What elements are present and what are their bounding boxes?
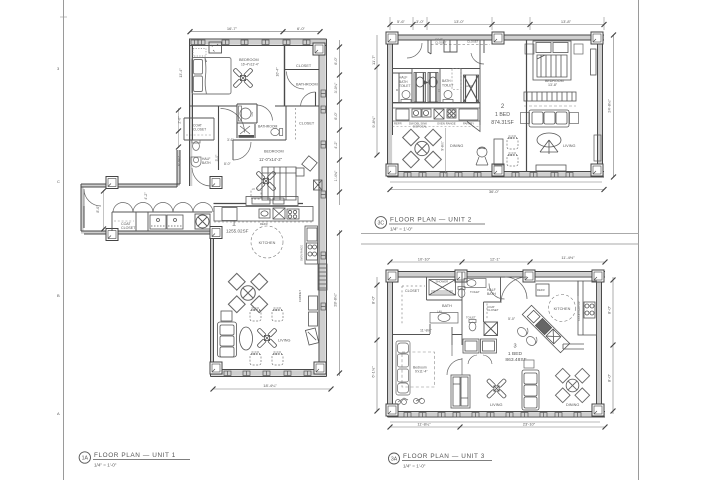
svg-text:3A: 3A xyxy=(391,457,398,463)
svg-text:LIVING: LIVING xyxy=(563,144,575,148)
svg-text:HALFBATH: HALFBATH xyxy=(202,157,211,165)
unit3 bedroom bed xyxy=(396,341,410,395)
svg-text:2'-0": 2'-0" xyxy=(178,116,182,124)
svg-text:3: 3 xyxy=(513,344,516,350)
svg-text:8'-0": 8'-0" xyxy=(607,305,612,314)
unit3 wall fill poche xyxy=(388,272,606,418)
svg-text:LAV: LAV xyxy=(250,111,254,116)
svg-text:BATH: BATH xyxy=(442,304,452,308)
unit1 bedroom1 fan xyxy=(233,68,253,88)
unit2 dim bottom ticks xyxy=(388,187,393,192)
unit2 high table xyxy=(476,147,488,165)
unit2 window sill line xyxy=(390,181,602,183)
unit3 hall ceiling fixture xyxy=(484,322,498,336)
unit2 dashed chairs xyxy=(507,136,518,149)
svg-text:13'-4": 13'-4" xyxy=(179,68,183,78)
unit3 closet dashed rod xyxy=(402,286,425,325)
unit2 bedroom dresser rail xyxy=(524,92,576,101)
svg-text:C: C xyxy=(57,179,60,184)
unit1 stub wall left mid xyxy=(177,150,180,187)
svg-text:FLOOR PLAN — UNIT 1: FLOOR PLAN — UNIT 1 xyxy=(94,452,176,459)
unit1 corridor closet dashed rod xyxy=(114,220,134,222)
svg-text:BEDROOM: BEDROOM xyxy=(239,58,259,62)
svg-text:23'-10": 23'-10" xyxy=(523,422,536,427)
unit1 kitchen upper cabinets xyxy=(246,197,298,206)
svg-text:12'-1": 12'-1" xyxy=(490,257,501,262)
unit1 coat closet upper walls xyxy=(184,118,214,140)
unit3 dim bottom ticks xyxy=(388,425,393,430)
unit1 bottom window ticks xyxy=(224,371,311,376)
unit2 column bottom-mid xyxy=(492,164,504,176)
unit1 mid bath shaft walls xyxy=(233,104,286,160)
svg-text:1A: 1A xyxy=(82,456,89,462)
svg-text:16'-4"x13'-4": 16'-4"x13'-4" xyxy=(241,63,259,67)
unit2 wall fill poche xyxy=(388,35,605,177)
svg-text:FLOOR PLAN — UNIT 3: FLOOR PLAN — UNIT 3 xyxy=(403,453,485,460)
unit2 dresser long xyxy=(591,49,597,75)
unit2 bedroom dashed rail xyxy=(524,105,576,107)
svg-text:36'-0": 36'-0" xyxy=(489,189,500,194)
svg-text:18'-4¼": 18'-4¼" xyxy=(263,383,277,388)
unit1 bedroom2 dashed chair xyxy=(251,189,261,199)
unit1 tv angled xyxy=(305,328,318,345)
unit1 dim corridor line xyxy=(101,189,106,232)
svg-text:BEDROOM: BEDROOM xyxy=(264,150,284,154)
unit1 dashed chairs row1 xyxy=(250,308,261,321)
unit3 right wall xyxy=(597,272,602,418)
unit3 living fan xyxy=(486,378,506,398)
unit3 bath walls xyxy=(430,272,501,345)
unit3 dim right line xyxy=(612,277,614,414)
svg-text:LIVING: LIVING xyxy=(278,339,290,343)
unit1 bath1 door arc xyxy=(301,92,316,106)
svg-text:CLOSET: CLOSET xyxy=(405,289,420,293)
svg-text:CLOSET: CLOSET xyxy=(296,64,312,68)
svg-text:5'-6": 5'-6" xyxy=(397,19,406,24)
svg-text:1/4" = 1'-0": 1/4" = 1'-0" xyxy=(94,463,117,468)
unit3 wardrobe xyxy=(451,375,470,408)
unit3 column bottom-right xyxy=(592,404,604,416)
unit2 kitchen counter band xyxy=(393,103,481,121)
unit1 living table set xyxy=(228,273,267,312)
unit3 dim top line xyxy=(390,261,605,263)
unit3 hall wall mid xyxy=(393,334,463,336)
unit3 coat closet walls xyxy=(486,304,488,320)
svg-text:LAV: LAV xyxy=(437,310,442,314)
svg-text:1 BED: 1 BED xyxy=(495,112,510,118)
unit1 kitchen right counters xyxy=(305,226,318,264)
unit1 closet2 dashed rod xyxy=(295,108,297,140)
unit3 top wall xyxy=(390,272,605,278)
unit2 living/dining partition xyxy=(526,40,528,172)
unit1 right wall window marks xyxy=(321,90,326,310)
unit2 bedroom bed xyxy=(533,41,571,80)
unit2 dim right line xyxy=(613,35,615,177)
svg-text:SHOWER: SHOWER xyxy=(436,280,449,284)
unit2 column top-mid xyxy=(492,32,504,44)
unit1 bedroom1 bed xyxy=(192,58,231,95)
unit2 dining interior dim xyxy=(441,128,446,174)
unit2 cabinet tall xyxy=(494,139,503,165)
unit1 dim top line xyxy=(190,31,320,33)
unit1 kitchen dashed circle xyxy=(251,226,283,258)
unit1 wall fill poche xyxy=(81,39,327,377)
svg-text:3'-6": 3'-6" xyxy=(227,138,235,142)
title strip divider upper xyxy=(361,233,639,235)
unit3 dining table set xyxy=(555,368,589,402)
unit1 corridor bottom wall xyxy=(81,231,211,234)
svg-text:B: B xyxy=(57,293,60,298)
unit2 bottom wall xyxy=(388,172,605,178)
svg-text:8'-0": 8'-0" xyxy=(607,373,612,382)
svg-text:10'-4": 10'-4" xyxy=(276,67,280,77)
unit2 half bath sink xyxy=(401,91,411,103)
unit2 bath block outline xyxy=(393,40,481,125)
svg-text:3'-0¼": 3'-0¼" xyxy=(334,82,338,93)
unit2 dim bottom line xyxy=(390,189,604,191)
unit1 dashed chair row1 right xyxy=(272,308,283,321)
svg-text:10'-10": 10'-10" xyxy=(418,257,431,262)
title block unit 2 bubble xyxy=(375,217,387,229)
unit2 shower xyxy=(464,75,479,103)
svg-text:REFR: REFR xyxy=(260,222,268,226)
svg-text:13'-0": 13'-0" xyxy=(454,19,465,24)
svg-text:1255.02SF: 1255.02SF xyxy=(226,229,249,234)
unit1 right wall xyxy=(319,39,327,377)
unit3 column top-left xyxy=(386,270,398,282)
unit1 lower block top wall xyxy=(214,203,304,205)
unit1 bedroom1 cabinet box xyxy=(209,42,222,53)
unit1 column corridor top-right xyxy=(210,177,222,189)
unit1 top wall window marks xyxy=(191,40,310,45)
svg-text:11'-4½": 11'-4½" xyxy=(561,255,575,260)
left sheet border line xyxy=(63,0,65,480)
unit2 left wall xyxy=(388,35,393,177)
unit1 mid bath door arc xyxy=(257,105,273,121)
unit2 column bottom-right xyxy=(591,164,603,176)
unit1 kitchen counter band xyxy=(214,207,313,222)
svg-text:28'-8¼": 28'-8¼" xyxy=(333,293,338,307)
svg-text:BATHROOM: BATHROOM xyxy=(296,83,318,87)
unit1 dim bottom ticks xyxy=(211,387,216,392)
unit1 corner box bedroom2 xyxy=(314,180,323,190)
unit3 dim top ticks xyxy=(388,260,393,265)
svg-text:DINING: DINING xyxy=(566,403,579,407)
unit1 dashed chairs row2 xyxy=(250,352,261,365)
title unit 3 underline xyxy=(402,460,492,462)
unit2 entry door arcs xyxy=(407,40,484,64)
unit2 column top-right xyxy=(591,32,603,44)
svg-text:COUNTERTOP: COUNTERTOP xyxy=(577,301,581,321)
unit2 bottom window ticks xyxy=(404,173,573,178)
svg-text:REFR: REFR xyxy=(394,122,402,126)
grid mark D xyxy=(57,17,67,71)
unit1 mid bath sink xyxy=(239,126,255,138)
svg-text:CLOSET: CLOSET xyxy=(467,40,479,44)
unit1 right pantry band xyxy=(318,264,327,290)
unit3 door arcs interior xyxy=(447,335,462,376)
unit3 bottom window ticks xyxy=(404,413,581,418)
unit3 column top-mid1 xyxy=(455,270,467,282)
unit2 right wall xyxy=(598,35,603,177)
unit2 dim top line xyxy=(390,17,604,30)
unit1 dim right ticks upper xyxy=(337,45,342,50)
unit1 half bath toilet xyxy=(192,140,200,150)
title unit 1 underline xyxy=(93,459,190,461)
unit3 kitchen bottom counter xyxy=(563,344,584,349)
unit3 kitchen right counter xyxy=(578,281,597,335)
unit2 closet partition walls xyxy=(428,40,484,54)
unit1 divider door arc xyxy=(287,72,305,90)
unit1 bedroom2 chair angled xyxy=(302,156,317,171)
svg-text:HALFBATH: HALFBATH xyxy=(487,288,496,296)
svg-text:874.31SF: 874.31SF xyxy=(491,120,514,126)
unit1 mid bath toilet xyxy=(239,106,255,121)
unit1 lower-left wall xyxy=(211,231,214,377)
unit2 half bath counter xyxy=(443,91,453,103)
svg-text:11'-0"x14'-2": 11'-0"x14'-2" xyxy=(259,157,283,162)
unit1 dim bottom line xyxy=(213,388,331,390)
unit1 column corridor bottom-right xyxy=(210,227,222,239)
unit3 column top-mid2 xyxy=(523,270,535,282)
svg-text:8'-0": 8'-0" xyxy=(371,295,376,304)
unit2 bedroom side table right xyxy=(574,44,583,54)
unit3 bottom wall xyxy=(388,412,606,418)
unit3 dim right ticks xyxy=(611,278,616,283)
svg-text:KITCHEN: KITCHEN xyxy=(259,241,276,245)
unit1 dim right line upper xyxy=(339,40,341,205)
unit1 column corridor bottom-left xyxy=(106,229,118,241)
unit1 half bath door arc xyxy=(192,168,210,186)
svg-text:6'-0": 6'-0" xyxy=(297,26,306,31)
unit1 corridor ceiling fixture xyxy=(195,214,210,229)
svg-text:BATHROOM: BATHROOM xyxy=(258,125,278,129)
unit3 island diagonal xyxy=(522,305,569,352)
unit3 shower box xyxy=(429,280,456,296)
unit1 bedroom1 door arc xyxy=(221,109,245,133)
unit1 corridor closet box xyxy=(112,212,212,231)
svg-text:6'-1¾": 6'-1¾" xyxy=(371,366,376,378)
unit3 kitchen top counter xyxy=(536,281,578,296)
unit1 divider wall bedroom1/closet xyxy=(284,46,286,107)
svg-text:9'-8¾": 9'-8¾" xyxy=(371,116,376,128)
unit2 coat closet dashed rail xyxy=(431,44,490,46)
svg-text:863.48SF: 863.48SF xyxy=(505,357,526,363)
unit2 kitchen dashed counter edge xyxy=(393,126,481,128)
unit1 corridor left wall xyxy=(81,184,84,231)
svg-text:1/4" = 1'-0": 1/4" = 1'-0" xyxy=(403,464,426,469)
unit1 coffee table oval xyxy=(240,327,253,350)
svg-text:5'-0": 5'-0" xyxy=(508,317,516,321)
unit1 corridor door arc left xyxy=(84,189,101,206)
title unit 2 underline xyxy=(389,223,485,225)
unit2 column top-left xyxy=(386,32,398,44)
unit1 bedroom2 bed xyxy=(262,167,304,200)
unit3 bedroom dashed rect xyxy=(402,352,435,387)
svg-text:1: 1 xyxy=(232,221,236,228)
unit1 bedroom1 bottom wall xyxy=(190,106,238,170)
unit2 dim top ticks xyxy=(388,22,393,27)
svg-text:OVEN RANGE: OVEN RANGE xyxy=(437,122,456,126)
unit1 left wall upper xyxy=(190,39,193,186)
unit3 kitchen dashed circle xyxy=(549,295,576,322)
unit3 closet walls xyxy=(427,277,463,300)
unit1 living fan xyxy=(257,328,277,348)
svg-text:8'-0": 8'-0" xyxy=(224,162,232,166)
unit3 refr xyxy=(536,284,549,296)
title block unit 1 bubble xyxy=(79,452,90,463)
unit1 closet bottom wall xyxy=(285,69,320,71)
unit2 sofa side tables xyxy=(521,113,530,124)
unit1 dim left upper line xyxy=(176,108,181,150)
svg-text:1 BED: 1 BED xyxy=(508,351,523,357)
unit3 island stools xyxy=(516,326,538,348)
unit3 dim left ticks xyxy=(375,283,380,288)
svg-text:13'-8": 13'-8" xyxy=(561,19,572,24)
unit3 half bath sink xyxy=(464,279,486,288)
svg-text:6'-0": 6'-0" xyxy=(334,112,338,120)
title block unit 3 bubble xyxy=(389,453,400,464)
unit3 entry arc xyxy=(501,277,527,303)
svg-text:16'-7": 16'-7" xyxy=(227,26,238,31)
unit2 pantry corner diagonal xyxy=(467,122,480,132)
unit3 dim bottom line xyxy=(390,426,605,428)
unit1 kitchen dashed edge xyxy=(214,221,313,223)
svg-text:24'-8¼": 24'-8¼" xyxy=(607,99,612,113)
unit1 bathroom2 toilet xyxy=(271,128,283,135)
unit1 corridor closet scallop arcs xyxy=(113,202,213,212)
unit2 living pedestal table xyxy=(537,133,561,154)
unit2 dim left ticks xyxy=(375,65,380,70)
unit1 half bath sink xyxy=(191,157,201,167)
unit1 bedroom2 door arc xyxy=(233,140,251,160)
unit1 column top-right xyxy=(313,43,325,55)
svg-text:Bedroom9'x11'-4": Bedroom9'x11'-4" xyxy=(413,366,428,374)
unit3 sofa vertical xyxy=(522,370,539,410)
unit3 dim left line xyxy=(376,277,378,411)
unit1 sofa square table xyxy=(221,311,232,321)
svg-text:3'-0": 3'-0" xyxy=(215,154,219,162)
svg-text:KITCHEN: KITCHEN xyxy=(554,307,571,311)
unit1 column corridor top-left xyxy=(106,177,118,189)
unit3 half bath walls xyxy=(489,284,505,300)
unit1 sofa xyxy=(218,322,237,357)
unit1 dim right line lower xyxy=(339,230,341,376)
svg-text:LIVING: LIVING xyxy=(490,403,502,407)
svg-text:TOILET: TOILET xyxy=(466,316,476,320)
unit3 side table xyxy=(524,360,534,368)
unit1 column bottom-left living xyxy=(210,362,222,374)
unit2 dim left line xyxy=(376,35,378,155)
unit3 window sill line xyxy=(390,421,600,423)
unit1 coat closet dashed rod xyxy=(186,134,212,136)
unit2 dining table set xyxy=(403,129,442,168)
unit2 bath toilet xyxy=(396,69,461,93)
svg-text:A: A xyxy=(57,411,60,416)
svg-text:8'-0": 8'-0" xyxy=(96,205,100,213)
svg-text:TOILET: TOILET xyxy=(470,290,480,294)
svg-text:CLOSET: CLOSET xyxy=(299,122,315,126)
unit1 dashed chair row2 right xyxy=(272,352,283,365)
unit2 living bench xyxy=(536,165,566,171)
unit1 top wall xyxy=(189,39,327,46)
unit3 lav counter xyxy=(430,313,458,324)
unit2 bedroom side tables xyxy=(525,44,534,54)
unit2 side chair right xyxy=(594,135,601,161)
unit1 bedroom1 wardrobe small xyxy=(193,49,206,57)
title strip divider lower xyxy=(361,243,639,245)
unit1 corridor top wall xyxy=(81,184,180,187)
unit1 tv console xyxy=(309,296,318,326)
svg-text:11'-8¼": 11'-8¼" xyxy=(417,422,431,427)
svg-text:9'-8¼": 9'-8¼" xyxy=(441,140,445,150)
svg-text:DINING: DINING xyxy=(450,144,463,148)
unit2 top wall xyxy=(390,35,604,40)
unit1 dim top ticks xyxy=(188,29,193,34)
svg-text:3C: 3C xyxy=(377,220,384,226)
unit1 dim right ticks lower xyxy=(337,231,342,236)
svg-text:6'-0¼": 6'-0¼" xyxy=(178,155,182,166)
unit2 sofa xyxy=(529,110,569,127)
unit1 column bottom-right living xyxy=(314,362,326,374)
svg-text:SHWR: SHWR xyxy=(465,84,473,88)
svg-text:PANTRY: PANTRY xyxy=(463,122,474,126)
svg-text:6'-0": 6'-0" xyxy=(334,57,338,65)
svg-text:OVEN RANGE: OVEN RANGE xyxy=(301,245,304,261)
svg-text:11'-8¼": 11'-8¼" xyxy=(420,329,433,333)
svg-text:REFR: REFR xyxy=(537,288,545,292)
svg-text:11'-7": 11'-7" xyxy=(371,54,376,64)
svg-text:FLOOR PLAN — UNIT 2: FLOOR PLAN — UNIT 2 xyxy=(390,217,472,224)
unit3 bath toilet top xyxy=(458,287,465,298)
svg-text:4'-2": 4'-2" xyxy=(334,141,338,149)
right sheet border line xyxy=(638,0,640,480)
svg-text:CABINET: CABINET xyxy=(298,290,302,302)
svg-text:4'-2": 4'-2" xyxy=(144,192,148,200)
unit3 left wall xyxy=(388,272,393,418)
unit3 laundry boxes xyxy=(463,339,497,364)
svg-text:3'-0": 3'-0" xyxy=(416,19,425,24)
svg-text:1'-4¾": 1'-4¾" xyxy=(334,170,338,181)
unit1 washer dryer boxes xyxy=(150,215,183,229)
svg-text:1/4" = 1'-0": 1/4" = 1'-0" xyxy=(390,227,413,232)
unit3 toilet lower xyxy=(469,320,476,331)
unit2 dim right ticks xyxy=(611,33,616,38)
unit3 exercise items xyxy=(396,398,425,405)
unit3 column top-right xyxy=(592,270,604,282)
unit1 bottom wall xyxy=(211,370,327,377)
unit3 column bottom-left xyxy=(386,404,398,416)
unit2 bath tubs xyxy=(414,73,438,103)
unit2 column bottom-left xyxy=(386,164,398,176)
unit1 bath1 bottom wall xyxy=(275,92,319,106)
unit1 bedroom2 fan xyxy=(256,171,276,191)
